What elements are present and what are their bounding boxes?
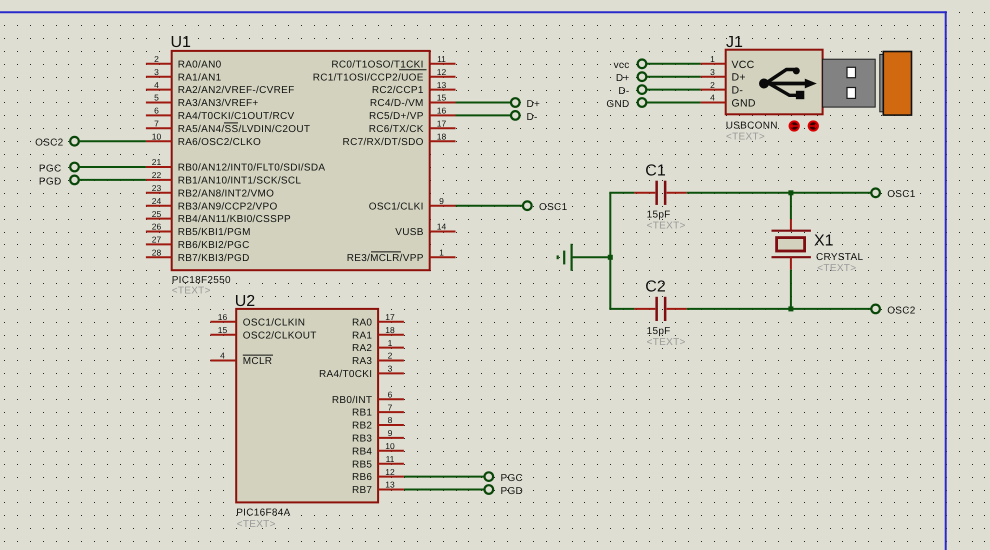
wire ground to crystal net	[573, 256, 611, 258]
svg-text:RB0/AN12/INT0/FLT0/SDI/SDA: RB0/AN12/INT0/FLT0/SDI/SDA	[178, 163, 326, 174]
svg-text:RB1/AN10/INT1/SCK/SCL: RB1/AN10/INT1/SCK/SCL	[178, 176, 302, 187]
svg-text:PIC16F84A: PIC16F84A	[236, 508, 290, 519]
svg-text:RC0/T1OSO/T1CKI: RC0/T1OSO/T1CKI	[331, 59, 423, 70]
wire U1 pin 15 to D+ terminal	[456, 102, 511, 104]
terminal node D+ at J1	[616, 72, 646, 84]
svg-text:8: 8	[388, 415, 393, 425]
svg-text:<TEXT>: <TEXT>	[172, 286, 211, 297]
svg-text:3: 3	[710, 67, 715, 77]
svg-text:RB0/INT: RB0/INT	[332, 395, 372, 406]
J1 USB plug orange overmold	[883, 52, 911, 116]
svg-text:RB5: RB5	[352, 459, 372, 470]
terminal node GND at J1	[606, 98, 646, 110]
terminal node PGD right of U2	[485, 485, 524, 497]
svg-text:X1: X1	[814, 233, 834, 250]
svg-text:D-: D-	[527, 112, 538, 123]
svg-text:RE3/MCLR/VPP: RE3/MCLR/VPP	[347, 253, 424, 264]
U1 pin 14 VUSB	[395, 222, 455, 238]
svg-text:22: 22	[152, 170, 162, 180]
IC U2 PIC16F84A	[235, 293, 378, 530]
ground symbol	[557, 244, 572, 271]
svg-text:D+: D+	[527, 99, 541, 110]
svg-text:26: 26	[152, 222, 162, 232]
J1 USB plug metal shell	[823, 59, 876, 107]
svg-text:MCLR: MCLR	[243, 356, 273, 367]
wire U1 pin 9 to OSC1 terminal	[456, 205, 523, 207]
wire OSC2 terminal to U1 pin 10	[79, 140, 146, 142]
svg-text:VCC: VCC	[732, 59, 755, 71]
svg-text:RA0: RA0	[352, 317, 372, 328]
svg-text:PGD: PGD	[39, 176, 62, 187]
capacitor C1 15pF	[609, 162, 686, 231]
svg-text:<TEXT>: <TEXT>	[237, 519, 276, 530]
U1 pin 23 RB2/AN8/INT2/VMO	[146, 183, 274, 199]
svg-text:14: 14	[437, 222, 447, 232]
svg-text:GND: GND	[606, 99, 629, 110]
terminal node OSC2 right	[871, 305, 915, 317]
svg-text:6: 6	[154, 106, 159, 116]
svg-text:15: 15	[437, 93, 447, 103]
U2 pin 12 RB6	[352, 467, 404, 483]
svg-text:RC1/T1OSI/CCP2/UOE: RC1/T1OSI/CCP2/UOE	[313, 72, 424, 83]
U1 pin 9 OSC1/CLKI	[369, 196, 456, 212]
U1 pin 11 RC0/T1OSO/T1CKI	[331, 54, 455, 70]
terminal node D- at J1	[618, 85, 646, 97]
svg-text:17: 17	[437, 119, 447, 129]
svg-text:1: 1	[710, 54, 715, 64]
wire PGC terminal to U1 pin 21	[79, 166, 146, 168]
svg-text:RA1: RA1	[352, 330, 372, 341]
U1 pin 7 RA5/AN4/SS/LVDIN/C2OUT	[146, 119, 310, 135]
svg-text:15: 15	[218, 325, 228, 335]
svg-text:RB7: RB7	[352, 485, 372, 496]
marker red left-arrow	[790, 121, 799, 130]
wire D- terminal to J1 pin 2	[647, 89, 701, 91]
svg-text:J1: J1	[726, 34, 743, 51]
svg-text:PGC: PGC	[39, 163, 62, 174]
svg-text:<TEXT>: <TEXT>	[817, 263, 856, 274]
svg-text:D-: D-	[732, 85, 744, 97]
U2 pin 9 RB3	[352, 428, 404, 444]
U1 pin 1 RE3/MCLR/VPP	[347, 248, 456, 264]
U2 pin 6 RB0/INT	[332, 389, 404, 405]
U2 pin 17 RA0	[352, 312, 404, 328]
svg-text:11: 11	[437, 54, 446, 64]
svg-text:OSC1: OSC1	[887, 189, 916, 200]
sheet border right edge	[945, 11, 947, 550]
svg-text:1: 1	[388, 338, 393, 348]
svg-text:7: 7	[388, 402, 393, 412]
svg-text:RB6: RB6	[352, 472, 372, 483]
svg-text:21: 21	[152, 157, 162, 167]
U1 pin 25 RB4/AN11/KBI0/CSSPP	[146, 209, 291, 225]
terminal node PGC left	[39, 163, 79, 175]
svg-text:18: 18	[385, 325, 395, 335]
wire C1 to OSC1 terminal	[687, 192, 872, 194]
wire U1 pin 16 to D- terminal	[456, 114, 511, 116]
svg-text:USBCONN: USBCONN	[726, 121, 778, 132]
U1 MCLR overline	[371, 251, 401, 253]
svg-text:RB5/KBI1/PGM: RB5/KBI1/PGM	[178, 227, 251, 238]
svg-text:<TEXT>: <TEXT>	[647, 337, 686, 348]
svg-text:16: 16	[218, 312, 228, 322]
U1 pin 28 RB7/KBI3/PGD	[146, 248, 250, 264]
svg-text:10: 10	[385, 441, 395, 451]
svg-text:RA3/AN3/VREF+: RA3/AN3/VREF+	[178, 98, 259, 109]
capacitor C2 15pF	[609, 279, 686, 349]
svg-text:RB2/AN8/INT2/VMO: RB2/AN8/INT2/VMO	[178, 188, 275, 199]
svg-text:4: 4	[154, 80, 159, 90]
J1 pin 3 D+	[701, 67, 746, 84]
wire U2 pin 13 RB7 to PGD terminal	[404, 489, 484, 491]
svg-text:12: 12	[437, 67, 447, 77]
U2 pin 2 RA3	[352, 351, 404, 367]
svg-text:RC7/RX/DT/SDO: RC7/RX/DT/SDO	[343, 137, 424, 148]
U2 pin 11 RB5	[352, 454, 404, 470]
svg-text:RB2: RB2	[352, 421, 372, 432]
svg-text:<TEXT>: <TEXT>	[726, 132, 765, 143]
svg-text:15pF: 15pF	[647, 210, 671, 221]
svg-text:7: 7	[154, 119, 159, 129]
U1 T1CKI underline mark	[399, 69, 427, 71]
svg-text:RA3: RA3	[352, 356, 372, 367]
svg-text:10: 10	[152, 131, 162, 141]
U2 pin 4 MCLR	[210, 351, 272, 367]
J1 USB plug contact hole 2	[847, 88, 856, 99]
U1 pin 6 RA4/T0CKI/C1OUT/RCV	[146, 106, 295, 122]
svg-text:17: 17	[385, 312, 395, 322]
terminal node PGD left	[39, 176, 79, 188]
junction node ground tee	[608, 255, 613, 260]
svg-text:RA4/T0CKI/C1OUT/RCV: RA4/T0CKI/C1OUT/RCV	[178, 111, 295, 122]
svg-text:11: 11	[386, 454, 395, 464]
U1 pin 16 RC5/D+/VP	[369, 106, 455, 122]
svg-text:<TEXT>: <TEXT>	[647, 221, 686, 232]
svg-text:OSC2: OSC2	[35, 138, 64, 149]
svg-text:OSC1/CLKI: OSC1/CLKI	[369, 201, 424, 212]
wire U2 pin 12 RB6 to PGC terminal	[404, 476, 484, 478]
svg-text:RA5/AN4/SS/LVDIN/C2OUT: RA5/AN4/SS/LVDIN/C2OUT	[178, 124, 311, 135]
U1 pin 18 RC7/RX/DT/SDO	[343, 131, 456, 147]
U2 pin 8 RB2	[352, 415, 404, 431]
IC U1 PIC18F2550	[171, 34, 430, 297]
U2 pin 1 RA2	[352, 338, 404, 354]
wire OSC1 net vertical left segment	[609, 193, 611, 309]
svg-text:CRYSTAL: CRYSTAL	[816, 252, 863, 263]
J1 USB plug contact hole 1	[847, 67, 856, 77]
svg-text:RC4/D-/VM: RC4/D-/VM	[370, 98, 424, 109]
svg-text:RB3: RB3	[352, 434, 372, 445]
svg-text:4: 4	[710, 93, 715, 103]
U1 SS overline	[224, 122, 238, 124]
svg-text:RA6/OSC2/CLKO: RA6/OSC2/CLKO	[178, 137, 261, 148]
terminal node vcc at J1	[614, 60, 647, 72]
U1 pin 12 RC1/T1OSI/CCP2/UOE	[313, 67, 456, 83]
svg-text:18: 18	[437, 131, 447, 141]
U1 pin 2 RA0/AN0	[146, 54, 222, 70]
svg-text:RA0/AN0: RA0/AN0	[178, 59, 222, 70]
svg-text:OSC2/CLKOUT: OSC2/CLKOUT	[243, 330, 317, 341]
svg-text:25: 25	[152, 209, 162, 219]
U1 pin 4 RA2/AN2/VREF-/CVREF	[146, 80, 295, 96]
svg-text:U2: U2	[235, 293, 256, 310]
svg-text:OSC1: OSC1	[539, 202, 568, 213]
U2 pin 13 RB7	[352, 480, 404, 496]
U1 pin 24 RB3/AN9/CCP2/VPO	[146, 196, 278, 212]
sheet border top edge	[0, 11, 947, 13]
svg-text:RB4: RB4	[352, 446, 372, 457]
svg-text:RA2/AN2/VREF-/CVREF: RA2/AN2/VREF-/CVREF	[178, 85, 295, 96]
U1 pin 5 RA3/AN3/VREF+	[146, 93, 259, 109]
svg-text:5: 5	[154, 93, 159, 103]
J1 pin 1 VCC	[701, 54, 755, 71]
junction node crystal bottom	[788, 306, 793, 311]
svg-text:13: 13	[437, 80, 447, 90]
J1 USB plug grey sliver	[880, 54, 883, 111]
terminal node D+ right of U1	[511, 98, 540, 110]
terminal node OSC1 right of U1	[523, 201, 568, 213]
wire vcc terminal to J1 pin 1	[647, 63, 701, 65]
svg-text:9: 9	[388, 428, 393, 438]
junction node crystal top	[788, 190, 793, 195]
wire PGD terminal to U1 pin 22	[79, 179, 146, 181]
svg-text:2: 2	[154, 54, 159, 64]
U2 pin 16 OSC1/CLKIN	[210, 312, 305, 328]
U1 pin 15 RC4/D-/VM	[370, 93, 456, 109]
svg-text:12: 12	[385, 467, 395, 477]
terminal node D- right of U1	[511, 111, 538, 123]
svg-text:13: 13	[385, 480, 395, 490]
svg-text:vcc: vcc	[614, 60, 630, 71]
svg-text:C1: C1	[645, 162, 666, 179]
terminal node OSC1 right	[871, 189, 915, 201]
U1 pin 13 RC2/CCP1	[372, 80, 456, 96]
U2 pin 10 RB4	[352, 441, 404, 457]
svg-text:RC5/D+/VP: RC5/D+/VP	[369, 111, 424, 122]
svg-text:15pF: 15pF	[647, 326, 671, 337]
U1 pin 17 RC6/TX/CK	[369, 119, 456, 135]
wire GND terminal to J1 pin 4	[647, 102, 701, 104]
svg-text:OSC1/CLKIN: OSC1/CLKIN	[243, 317, 305, 328]
U2 pin 18 RA1	[352, 325, 404, 341]
svg-text:RA2: RA2	[352, 343, 372, 354]
U2 MCLR overline	[243, 354, 273, 356]
svg-text:RA4/T0CKI: RA4/T0CKI	[319, 369, 372, 380]
svg-text:VUSB: VUSB	[395, 227, 423, 238]
svg-text:24: 24	[152, 196, 162, 206]
U1 pin 26 RB5/KBI1/PGM	[146, 222, 251, 238]
svg-text:23: 23	[152, 183, 162, 193]
U1 pin 3 RA1/AN1	[146, 67, 222, 83]
svg-text:RB1: RB1	[352, 408, 372, 419]
svg-text:PGC: PGC	[501, 473, 524, 484]
svg-text:C2: C2	[645, 279, 666, 296]
svg-text:RA1/AN1: RA1/AN1	[178, 72, 222, 83]
svg-text:U1: U1	[171, 34, 192, 51]
U2 pin 15 OSC2/CLKOUT	[210, 325, 316, 341]
svg-text:OSC2: OSC2	[887, 305, 916, 316]
J1 pin 4 GND	[701, 93, 756, 110]
svg-text:3: 3	[388, 364, 393, 374]
svg-text:2: 2	[710, 80, 715, 90]
svg-text:6: 6	[388, 389, 393, 399]
svg-text:9: 9	[439, 196, 444, 206]
svg-text:4: 4	[220, 351, 225, 361]
wire D+ terminal to J1 pin 3	[647, 76, 701, 78]
U2 pin 3 RA4/T0CKI	[319, 364, 404, 380]
svg-text:2: 2	[388, 351, 393, 361]
svg-text:RB4/AN11/KBI0/CSSPP: RB4/AN11/KBI0/CSSPP	[178, 214, 291, 225]
U1 pin 27 RB6/KBI2/PGC	[146, 235, 250, 251]
U1 pin 21 RB0/AN12/INT0/FLT0/SDI/SDA	[146, 157, 325, 173]
wire C2 to OSC2 terminal	[687, 308, 872, 310]
svg-text:RC6/TX/CK: RC6/TX/CK	[369, 124, 424, 135]
svg-text:PGD: PGD	[501, 486, 524, 497]
J1 pin 2 D-	[701, 80, 744, 97]
J1 USB trident icon	[759, 67, 817, 99]
svg-text:RB6/KBI2/PGC: RB6/KBI2/PGC	[178, 240, 250, 251]
U1 pin 22 RB1/AN10/INT1/SCK/SCL	[146, 170, 302, 186]
svg-text:RB7/KBI3/PGD: RB7/KBI3/PGD	[178, 253, 250, 264]
marker red right-arrow	[809, 121, 818, 130]
svg-text:D-: D-	[618, 86, 629, 97]
svg-text:3: 3	[154, 67, 159, 77]
svg-text:27: 27	[152, 235, 162, 245]
svg-text:D+: D+	[616, 73, 630, 84]
svg-text:GND: GND	[732, 98, 756, 110]
svg-text:PIC18F2550: PIC18F2550	[172, 275, 231, 286]
svg-text:D+: D+	[732, 72, 746, 84]
svg-text:1: 1	[439, 248, 444, 258]
svg-text:28: 28	[152, 248, 162, 258]
connector J1 USBCONN body	[726, 34, 823, 143]
svg-text:RB3/AN9/CCP2/VPO: RB3/AN9/CCP2/VPO	[178, 201, 278, 212]
terminal node PGC right of U2	[485, 472, 524, 484]
svg-text:RC2/CCP1: RC2/CCP1	[372, 85, 424, 96]
svg-text:16: 16	[437, 106, 447, 116]
terminal node OSC2 left	[35, 137, 79, 149]
crystal X1	[772, 193, 864, 309]
U2 pin 7 RB1	[352, 402, 404, 418]
U1 pin 10 RA6/OSC2/CLKO	[146, 131, 261, 147]
